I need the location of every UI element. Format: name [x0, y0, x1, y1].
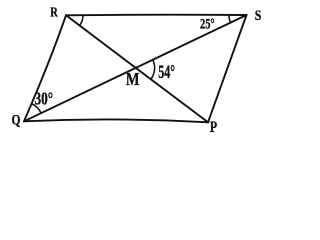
svg-text:S: S: [255, 8, 262, 24]
svg-text:R: R: [50, 6, 58, 21]
svg-text:54°: 54°: [158, 63, 175, 83]
svg-text:P: P: [210, 119, 218, 136]
svg-text:M: M: [126, 69, 140, 89]
svg-text:25°: 25°: [200, 16, 215, 32]
svg-text:30°: 30°: [35, 89, 54, 109]
svg-text:Q: Q: [12, 113, 21, 129]
